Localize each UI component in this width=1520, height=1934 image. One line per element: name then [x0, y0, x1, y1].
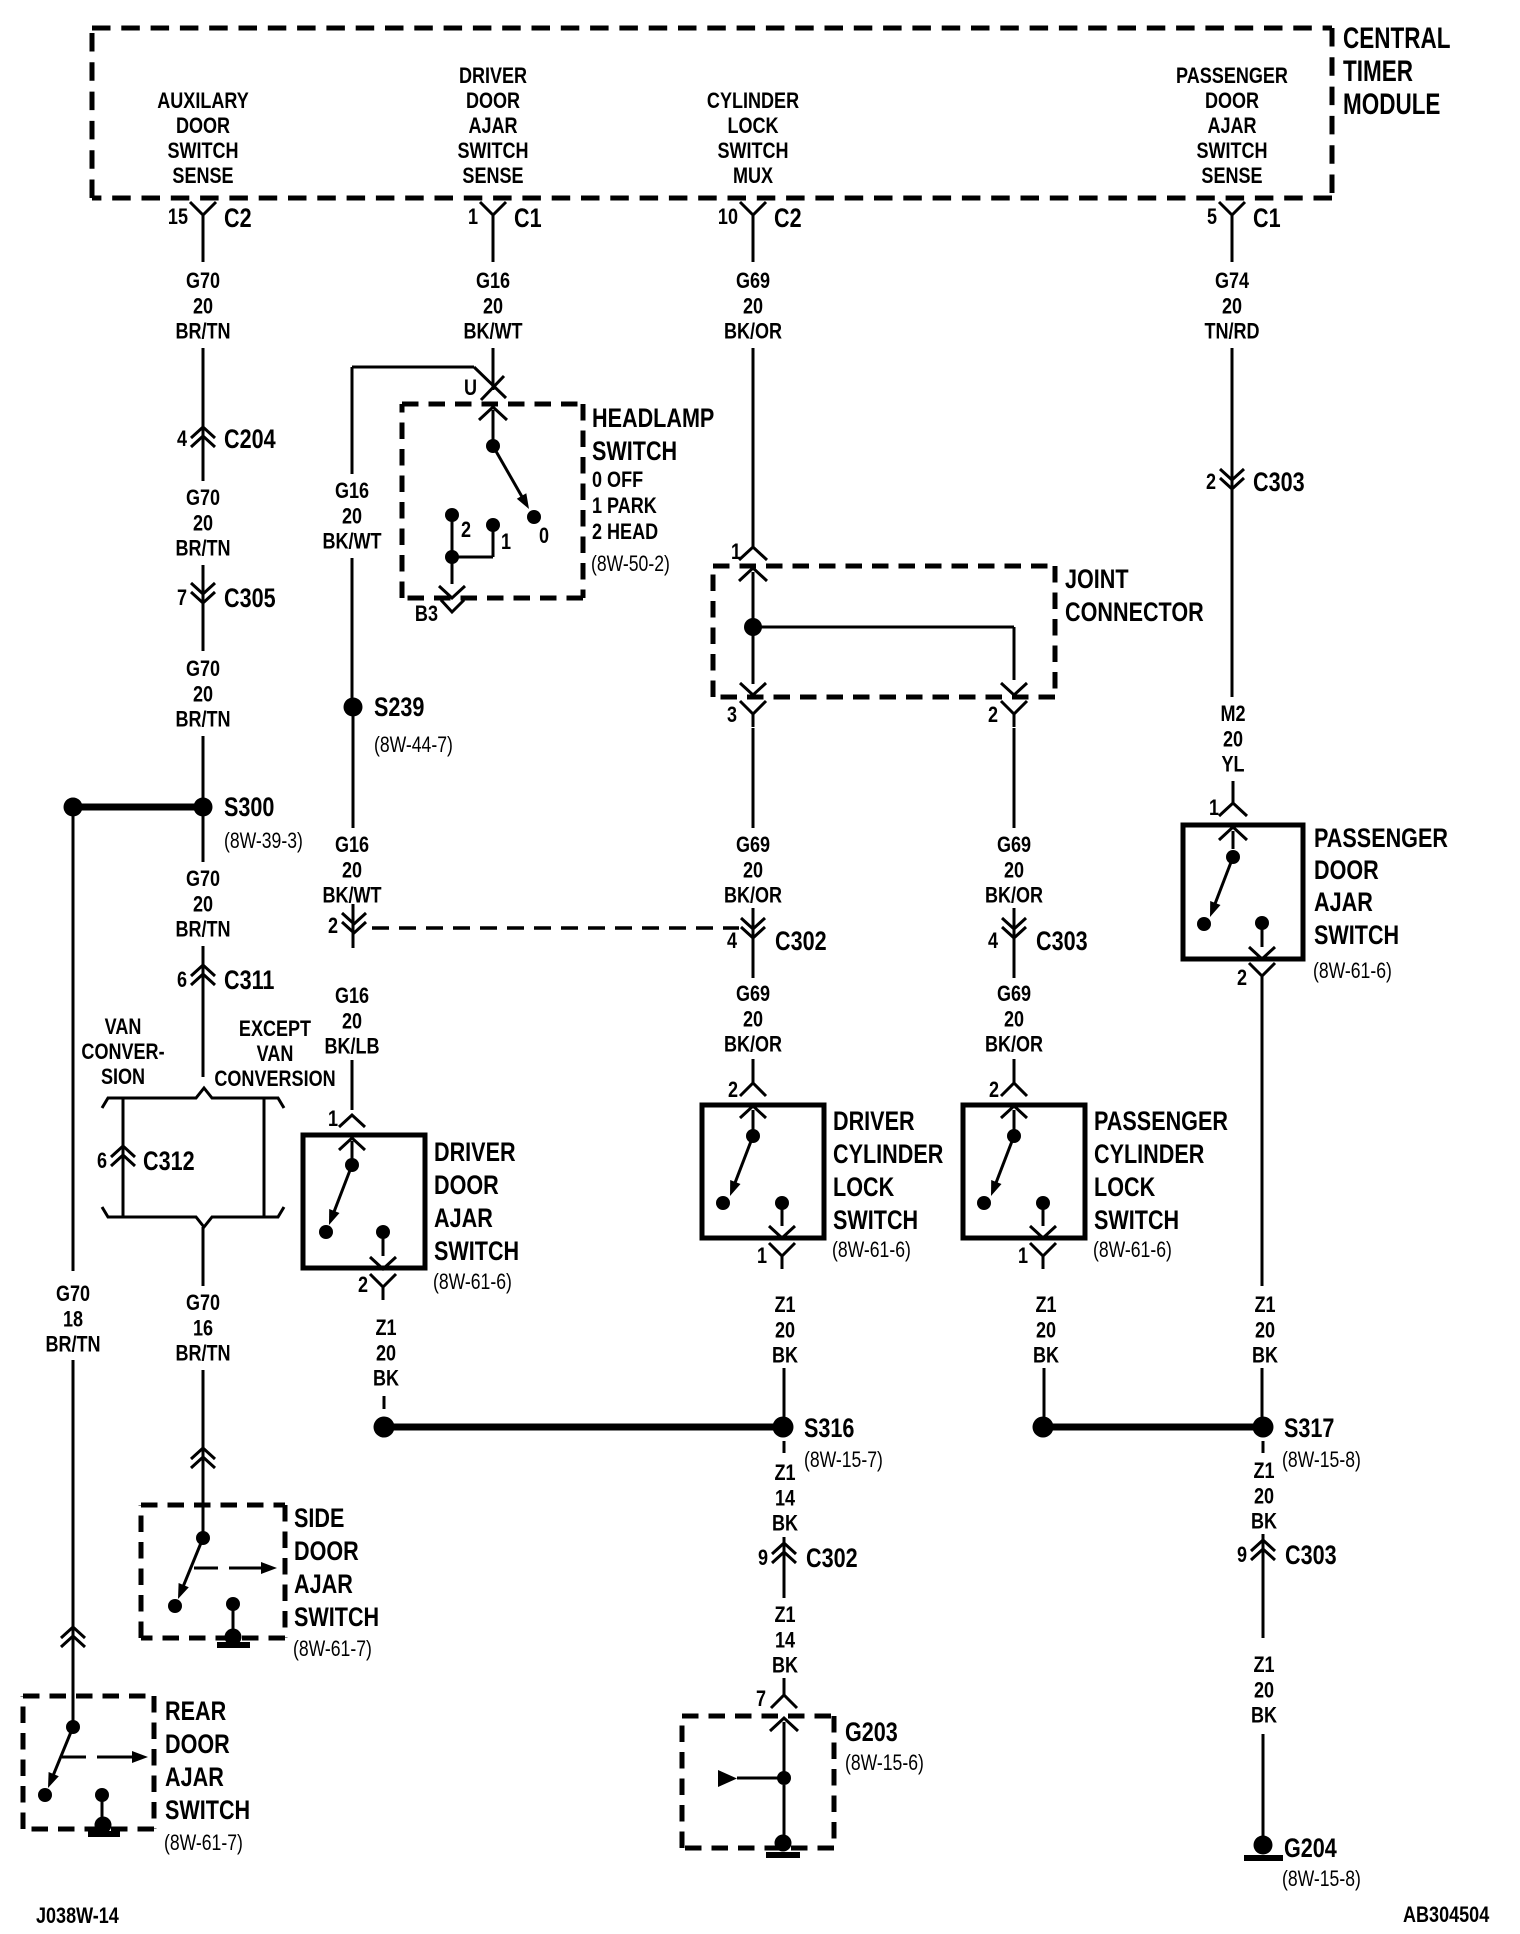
label REAR DOOR AJAR SWITCH [164, 1697, 250, 1856]
svg-text:AJAR: AJAR [468, 114, 518, 138]
wire [72, 1655, 75, 1724]
sheet number AB304504 [1403, 1903, 1490, 1927]
svg-text:7: 7 [756, 1687, 766, 1711]
svg-text:(8W-61-6): (8W-61-6) [832, 1238, 911, 1262]
svg-text:AJAR: AJAR [294, 1570, 353, 1600]
svg-text:BK: BK [772, 1654, 798, 1678]
driver ajar switch common contact [345, 1158, 359, 1172]
brace top [102, 1088, 284, 1108]
passenger ajar output contact [1249, 916, 1275, 959]
rear door switch arm [38, 1727, 73, 1802]
svg-text:5: 5 [1207, 205, 1217, 229]
wire label G16 20 BK/WT [322, 479, 382, 554]
svg-text:BK: BK [772, 1344, 798, 1368]
svg-text:C302: C302 [775, 927, 827, 957]
svg-text:S239: S239 [374, 693, 424, 723]
central timer module box [92, 28, 1332, 198]
wire [783, 1571, 786, 1598]
svg-text:G16: G16 [335, 984, 369, 1008]
svg-text:SENSE: SENSE [172, 164, 233, 188]
ground G203 pin 7 [756, 1682, 797, 1711]
passenger door ajar switch pin 1 [1209, 796, 1247, 820]
wire [1261, 987, 1264, 1286]
svg-text:2 HEAD: 2 HEAD [592, 520, 658, 544]
svg-text:20: 20 [193, 893, 213, 917]
svg-text:C303: C303 [1036, 927, 1088, 957]
wire [352, 716, 355, 828]
svg-text:CONVER-: CONVER- [81, 1040, 164, 1064]
wire [202, 452, 205, 481]
svg-text:S317: S317 [1284, 1414, 1334, 1444]
svg-text:EXCEPT: EXCEPT [239, 1017, 312, 1041]
svg-text:JOINT: JOINT [1065, 565, 1129, 595]
svg-text:DOOR: DOOR [434, 1171, 499, 1201]
svg-text:Z1: Z1 [1035, 1293, 1056, 1317]
svg-text:BK/OR: BK/OR [985, 1033, 1044, 1057]
driver cyl lock output contact [769, 1196, 795, 1238]
splice S239 [344, 693, 453, 758]
svg-text:G74: G74 [1215, 269, 1250, 293]
svg-text:BR/TN: BR/TN [45, 1333, 100, 1357]
connector C303 pin 4 [988, 908, 1088, 957]
junction to S316 [374, 1417, 784, 1438]
connector C302 pin 2 left half [328, 904, 366, 948]
svg-text:PASSENGER: PASSENGER [1094, 1107, 1228, 1137]
svg-text:PASSENGER: PASSENGER [1314, 824, 1448, 854]
svg-text:14: 14 [775, 1629, 796, 1653]
label SIDE DOOR AJAR SWITCH [293, 1504, 379, 1662]
svg-text:G69: G69 [736, 982, 770, 1006]
svg-text:2: 2 [1206, 470, 1216, 494]
wire label Z1 14 BK [772, 1603, 798, 1678]
wire label M2 20 YL [1220, 702, 1245, 777]
svg-text:Z1: Z1 [1254, 1293, 1275, 1317]
svg-text:S316: S316 [804, 1414, 854, 1444]
wire [202, 1370, 205, 1535]
wire label G74 20 TN/RD [1204, 269, 1259, 344]
wire [752, 728, 755, 828]
svg-text:1: 1 [328, 1107, 338, 1131]
ground in side door switch [217, 1629, 250, 1649]
wire [122, 1174, 125, 1218]
label AUXILARY DOOR SWITCH SENSE [157, 89, 249, 188]
wire stub to S316 [383, 1396, 386, 1409]
wire [202, 736, 205, 800]
headlamp switch contact 1 [486, 518, 511, 554]
svg-text:10: 10 [718, 205, 738, 229]
wire label G16 20 BK/WT [463, 269, 523, 344]
ground in rear door switch [88, 1817, 120, 1838]
svg-text:SWITCH: SWITCH [1314, 921, 1399, 951]
svg-text:6: 6 [97, 1149, 107, 1173]
side door switch contact top [196, 1531, 210, 1545]
svg-text:DRIVER: DRIVER [459, 64, 528, 88]
svg-text:20: 20 [743, 1008, 763, 1032]
splice S300 [64, 793, 303, 854]
passenger ajar common contact [1226, 850, 1240, 864]
svg-text:G69: G69 [736, 269, 770, 293]
svg-text:20: 20 [1255, 1319, 1275, 1343]
svg-text:C311: C311 [224, 966, 274, 996]
wire label G16 20 BK/LB [324, 984, 379, 1059]
svg-text:20: 20 [1254, 1485, 1274, 1509]
label HEADLAMP SWITCH [591, 404, 714, 577]
svg-text:C1: C1 [1253, 204, 1281, 234]
svg-text:SION: SION [101, 1065, 145, 1089]
svg-text:20: 20 [1223, 728, 1243, 752]
wire label G69 20 BK/OR [985, 833, 1044, 908]
wire [202, 1227, 205, 1286]
svg-text:7: 7 [177, 586, 187, 610]
wire [492, 348, 495, 390]
svg-text:1: 1 [468, 205, 478, 229]
svg-text:DOOR: DOOR [1205, 89, 1260, 113]
svg-text:C302: C302 [806, 1544, 858, 1574]
connector C302 pin 9 [758, 1543, 858, 1574]
svg-text:SWITCH: SWITCH [1196, 139, 1267, 163]
wire [72, 1360, 75, 1724]
driver cyl lock common contact [746, 1129, 760, 1143]
svg-text:(8W-15-7): (8W-15-7) [804, 1448, 883, 1472]
passenger cyl lock output contact [1030, 1196, 1056, 1238]
svg-text:G204: G204 [1284, 1834, 1337, 1864]
svg-text:S300: S300 [224, 793, 274, 823]
svg-text:(8W-39-3): (8W-39-3) [224, 829, 303, 853]
dashed wire to C302 [372, 926, 739, 930]
svg-text:SWITCH: SWITCH [1094, 1206, 1179, 1236]
passenger cylinder lock switch pin 2 [989, 1070, 1027, 1102]
svg-text:AB304504: AB304504 [1403, 1903, 1490, 1927]
wire [1261, 1368, 1264, 1417]
svg-text:2: 2 [1237, 966, 1247, 990]
wire stub [1262, 1441, 1265, 1453]
svg-text:9: 9 [758, 1546, 768, 1570]
wire label G70 18 BR/TN [45, 1282, 100, 1357]
label PASSENGER CYLINDER LOCK SWITCH [1093, 1107, 1228, 1263]
wire from C1 pin 1 [492, 228, 495, 262]
svg-text:BK: BK [1251, 1704, 1277, 1728]
svg-text:CONNECTOR: CONNECTOR [1065, 598, 1204, 628]
label JOINT CONNECTOR [1065, 565, 1204, 628]
svg-text:TN/RD: TN/RD [1204, 320, 1259, 344]
driver cylinder lock switch pin 2 [728, 1070, 766, 1102]
joint connector junction [744, 618, 1014, 680]
svg-text:LOCK: LOCK [727, 114, 779, 138]
svg-text:DOOR: DOOR [466, 89, 521, 113]
svg-text:BR/TN: BR/TN [175, 320, 230, 344]
svg-text:20: 20 [1254, 1679, 1274, 1703]
svg-text:20: 20 [193, 683, 213, 707]
svg-text:C2: C2 [224, 204, 252, 234]
svg-text:BR/TN: BR/TN [175, 537, 230, 561]
svg-text:20: 20 [1222, 295, 1242, 319]
joint connector entry arrow [739, 568, 767, 620]
wire [1231, 348, 1234, 497]
wire van branch [122, 1097, 125, 1218]
joint connector box [713, 566, 1055, 697]
G203 entry arrow [770, 1718, 798, 1772]
svg-text:3: 3 [727, 703, 737, 727]
connector C303 pin 9 [1237, 1534, 1337, 1571]
driver door ajar switch box [303, 1135, 425, 1268]
svg-text:HEADLAMP: HEADLAMP [592, 404, 714, 434]
wire [202, 1476, 205, 1535]
passenger cyl lock arm [977, 1136, 1014, 1210]
wire label G16 20 BK/WT [322, 833, 382, 908]
wire from C1 pin 5 [1231, 228, 1234, 262]
pin into headlamp switch [479, 407, 507, 420]
svg-text:BK: BK [772, 1512, 798, 1536]
headlamp switch contact 2 [445, 508, 471, 542]
ground G203 box [682, 1716, 834, 1848]
wire [351, 558, 354, 698]
wire label Z1 20 BK [772, 1293, 798, 1368]
joint connector pin 3 [727, 701, 766, 727]
svg-text:G70: G70 [186, 867, 220, 891]
svg-text:(8W-15-8): (8W-15-8) [1282, 1867, 1361, 1891]
svg-text:BK/LB: BK/LB [324, 1035, 379, 1059]
wire label G69 20 BK/OR [724, 982, 783, 1057]
svg-text:SWITCH: SWITCH [167, 139, 238, 163]
connector C2 pin 15 [168, 202, 252, 234]
wire label Z1 20 BK [1252, 1293, 1278, 1368]
svg-text:AJAR: AJAR [1314, 888, 1373, 918]
svg-text:G69: G69 [997, 982, 1031, 1006]
svg-text:4: 4 [988, 929, 999, 953]
passenger cyl lock entry arrow [1001, 1106, 1027, 1130]
wire [1013, 728, 1016, 828]
passenger ajar pin 2 [1237, 963, 1275, 990]
rear door ajar switch box [23, 1696, 154, 1829]
svg-text:C2: C2 [774, 204, 802, 234]
label DRIVER DOOR AJAR SWITCH SENSE [457, 64, 528, 188]
side door ajar switch box [141, 1505, 285, 1638]
svg-text:2: 2 [728, 1078, 738, 1102]
svg-text:BR/TN: BR/TN [175, 708, 230, 732]
connector to side door switch [191, 1448, 215, 1468]
side door switch arm [168, 1538, 203, 1613]
rear door switch ground contact [95, 1788, 109, 1822]
wire [351, 1060, 354, 1110]
label PASSENGER DOOR AJAR SWITCH SENSE [1176, 64, 1288, 188]
svg-text:15: 15 [168, 205, 188, 229]
headlamp switch wire in [492, 410, 495, 440]
wire label G70 16 BR/TN [175, 1291, 230, 1366]
label G203 [845, 1718, 924, 1776]
connector C1 pin 1 [468, 202, 542, 234]
svg-text:SWITCH: SWITCH [165, 1796, 250, 1826]
svg-text:BK/WT: BK/WT [463, 320, 523, 344]
svg-text:DRIVER: DRIVER [833, 1107, 915, 1137]
ground G204 [1244, 1834, 1361, 1892]
connector C305 pin 7 [177, 583, 276, 614]
svg-text:20: 20 [775, 1319, 795, 1343]
wire label Z1 20 BK [373, 1316, 399, 1391]
wire label G70 20 BR/TN [175, 269, 230, 344]
svg-text:1: 1 [1209, 796, 1219, 820]
svg-text:SWITCH: SWITCH [434, 1237, 519, 1267]
passenger cyl lock pin 1 [1018, 1243, 1056, 1269]
wire [1232, 781, 1235, 803]
svg-text:AUXILARY: AUXILARY [157, 89, 249, 113]
svg-text:CONVERSION: CONVERSION [214, 1067, 335, 1091]
label DRIVER CYLINDER LOCK SWITCH [832, 1107, 944, 1263]
svg-text:Z1: Z1 [774, 1603, 795, 1627]
splice S317 [1253, 1414, 1361, 1473]
svg-text:20: 20 [1036, 1319, 1056, 1343]
svg-text:DRIVER: DRIVER [434, 1138, 516, 1168]
svg-text:(8W-61-7): (8W-61-7) [293, 1637, 372, 1661]
wire label Z1 20 BK [1033, 1293, 1059, 1368]
svg-text:DOOR: DOOR [165, 1730, 230, 1760]
wire [1013, 1059, 1016, 1083]
svg-text:20: 20 [483, 295, 503, 319]
svg-text:1: 1 [1018, 1244, 1028, 1268]
wire [752, 348, 755, 547]
svg-text:DOOR: DOOR [176, 114, 231, 138]
wire stub [783, 1441, 786, 1453]
driver ajar switch entry arrow [339, 1138, 365, 1160]
headlamp switch common contact [486, 439, 500, 453]
connector C312 pin 6 [97, 1146, 195, 1177]
G203 ground symbol [766, 1785, 800, 1858]
svg-text:CYLINDER: CYLINDER [707, 89, 800, 113]
svg-text:G70: G70 [56, 1282, 90, 1306]
svg-text:0 OFF: 0 OFF [592, 468, 643, 492]
side door switch ground contact [226, 1597, 240, 1634]
svg-text:1: 1 [757, 1244, 767, 1268]
svg-text:4: 4 [727, 929, 738, 953]
svg-text:(8W-61-7): (8W-61-7) [164, 1831, 243, 1855]
passenger cyl lock common contact [1007, 1129, 1021, 1143]
svg-text:1: 1 [731, 540, 741, 564]
junction to S317 [1033, 1417, 1264, 1438]
driver door ajar switch pin 1 [328, 1107, 365, 1131]
svg-text:MODULE: MODULE [1343, 87, 1440, 121]
wire [202, 946, 205, 1077]
wire [202, 816, 205, 862]
svg-text:C312: C312 [143, 1147, 195, 1177]
headlamp switch box [402, 404, 583, 598]
svg-text:BK: BK [1252, 1344, 1278, 1368]
passenger cylinder lock switch box [963, 1105, 1085, 1238]
driver cyl lock pin 1 [757, 1243, 795, 1269]
label EXCEPT VAN CONVERSION [214, 1017, 335, 1091]
svg-text:1 PARK: 1 PARK [592, 494, 657, 518]
joint connector pin 1 [731, 540, 767, 564]
wire [1262, 1734, 1265, 1838]
svg-text:J038W-14: J038W-14 [36, 1904, 120, 1928]
svg-text:AJAR: AJAR [1207, 114, 1257, 138]
driver cyl lock entry arrow [740, 1106, 766, 1130]
wire branch down to S239 [351, 367, 354, 474]
svg-text:20: 20 [1004, 1008, 1024, 1032]
svg-text:(8W-15-6): (8W-15-6) [845, 1751, 924, 1775]
wire [752, 1059, 755, 1083]
joint connector wire down left [740, 630, 766, 695]
driver ajar switch arm [319, 1165, 352, 1239]
svg-text:20: 20 [743, 859, 763, 883]
svg-text:YL: YL [1221, 753, 1244, 777]
driver cyl lock arm [716, 1136, 753, 1210]
wire from C2 pin 10 [752, 228, 755, 262]
wire from S300 left [72, 816, 75, 1271]
headlamp switch internal wires [445, 515, 493, 584]
svg-text:18: 18 [63, 1308, 83, 1332]
svg-text:BK/OR: BK/OR [724, 884, 783, 908]
wire from C2 pin 15 [202, 228, 205, 262]
label VAN CONVERSION [81, 1015, 164, 1089]
svg-text:Z1: Z1 [1253, 1653, 1274, 1677]
svg-text:G70: G70 [186, 269, 220, 293]
wire [1043, 1368, 1046, 1417]
wire [202, 565, 205, 651]
svg-text:DOOR: DOOR [294, 1537, 359, 1567]
svg-text:20: 20 [342, 859, 362, 883]
wire label G70 20 BR/TN [175, 486, 230, 561]
wire label Z1 20 BK [1251, 1459, 1277, 1534]
svg-text:6: 6 [177, 968, 187, 992]
G203 junction [718, 1770, 791, 1787]
svg-text:14: 14 [775, 1487, 796, 1511]
wire branch to S239 [352, 367, 506, 398]
svg-text:BK: BK [1251, 1510, 1277, 1534]
label CENTRAL TIMER MODULE [1343, 21, 1450, 121]
svg-text:G203: G203 [845, 1718, 898, 1748]
svg-text:AJAR: AJAR [434, 1204, 493, 1234]
wire label G69 20 BK/OR [724, 269, 783, 344]
wire label G69 20 BK/OR [724, 833, 783, 908]
wire [202, 993, 205, 1077]
svg-text:9: 9 [1237, 1543, 1247, 1567]
svg-text:20: 20 [743, 295, 763, 319]
svg-text:2: 2 [988, 703, 998, 727]
connector to rear door switch [61, 1627, 85, 1647]
wire [1262, 1568, 1265, 1638]
svg-text:Z1: Z1 [774, 1461, 795, 1485]
svg-text:2: 2 [989, 1078, 999, 1102]
wire [202, 610, 205, 651]
svg-text:BK: BK [373, 1367, 399, 1391]
svg-text:20: 20 [342, 1010, 362, 1034]
svg-text:CYLINDER: CYLINDER [1094, 1140, 1205, 1170]
driver cylinder lock switch box [702, 1105, 824, 1238]
svg-text:G70: G70 [186, 657, 220, 681]
svg-text:DOOR: DOOR [1314, 856, 1379, 886]
svg-text:G70: G70 [186, 486, 220, 510]
joint connector exit arrow right [1001, 683, 1027, 695]
svg-text:20: 20 [342, 505, 362, 529]
svg-text:SIDE: SIDE [294, 1504, 344, 1534]
svg-text:SENSE: SENSE [1201, 164, 1262, 188]
wire label G70 20 BR/TN [175, 867, 230, 942]
svg-text:20: 20 [1004, 859, 1024, 883]
wire label Z1 14 BK [772, 1461, 798, 1536]
svg-text:AJAR: AJAR [165, 1763, 224, 1793]
svg-text:MUX: MUX [733, 164, 774, 188]
svg-text:G69: G69 [997, 833, 1031, 857]
connector C1 pin 5 [1207, 202, 1281, 234]
svg-text:0: 0 [539, 524, 549, 548]
passenger ajar entry arrow [1219, 827, 1247, 849]
svg-text:C305: C305 [224, 584, 276, 614]
wire [1231, 495, 1234, 697]
joint connector pin 2 [988, 701, 1027, 727]
svg-text:PASSENGER: PASSENGER [1176, 64, 1288, 88]
connector C2 pin 10 [718, 202, 802, 234]
svg-text:2: 2 [328, 914, 338, 938]
connector C204 pin 4 [177, 425, 276, 455]
